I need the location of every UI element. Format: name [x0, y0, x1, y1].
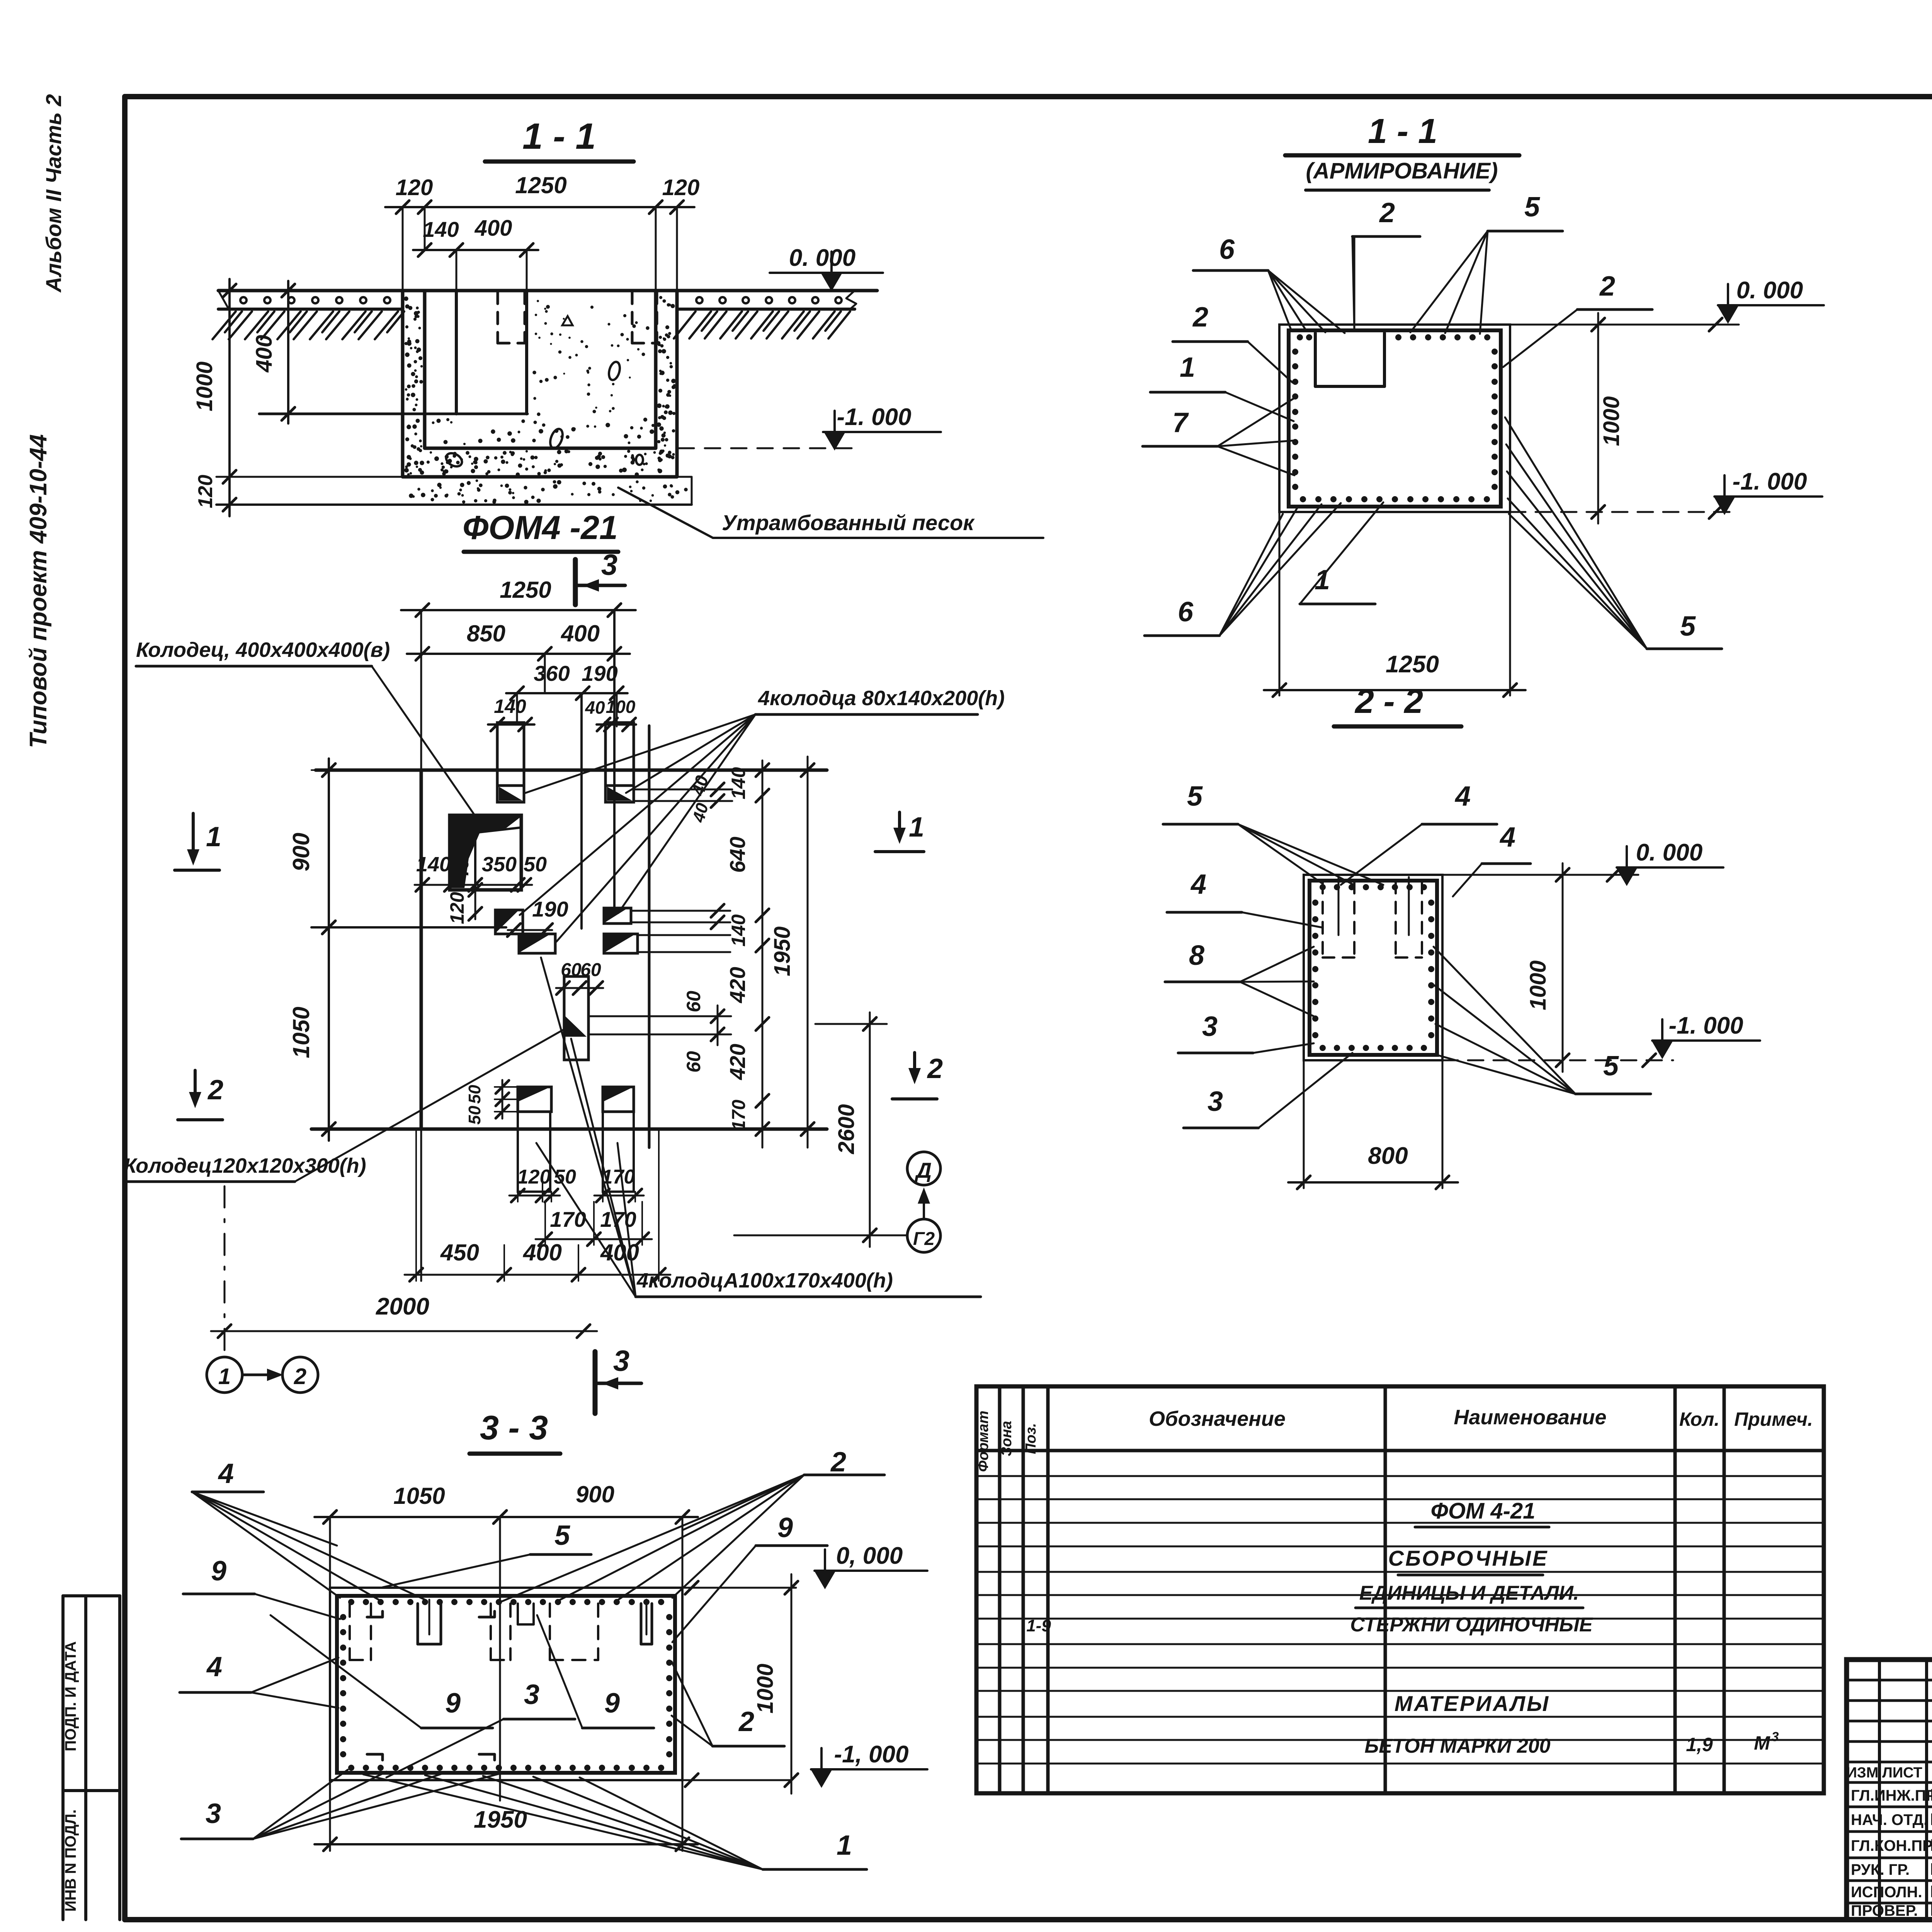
svg-text:М: М: [1754, 1732, 1770, 1754]
svg-text:БЕТОН МАРКИ 200: БЕТОН МАРКИ 200: [1364, 1735, 1550, 1757]
svg-text:3: 3: [601, 549, 617, 582]
svg-text:4колодцА100х170х400(h): 4колодцА100х170х400(h): [636, 1269, 893, 1292]
foundation concrete outline: [403, 291, 677, 477]
label podp i data: [62, 1641, 79, 1752]
svg-text:5: 5: [1680, 611, 1696, 642]
well 80x140 mid-right: [604, 904, 730, 929]
plan left edge: [420, 610, 422, 1281]
1-1a callout 1 bottom: [1300, 502, 1383, 604]
spec row fom: [1415, 1498, 1549, 1527]
1-1a callout 5 top: [1410, 192, 1563, 334]
2-2 rebar dots: [1312, 884, 1434, 1051]
svg-text:2: 2: [1192, 302, 1208, 333]
svg-text:1000: 1000: [192, 361, 217, 411]
svg-text:120: 120: [517, 1166, 551, 1188]
2-2 rebar cage: [1310, 881, 1437, 1055]
title block names: [1851, 1786, 1932, 1920]
svg-text:140: 140: [416, 853, 451, 876]
spec grid: [976, 1386, 1824, 1793]
svg-text:1050: 1050: [288, 1007, 314, 1058]
svg-text:1: 1: [218, 1364, 231, 1389]
svg-text:140: 140: [728, 767, 749, 799]
1-1a callout 7 left: [1143, 398, 1294, 475]
svg-text:0. 000: 0. 000: [1736, 277, 1803, 304]
svg-text:5: 5: [1187, 781, 1203, 812]
svg-text:7: 7: [1172, 407, 1189, 438]
svg-text:(АРМИРОВАНИЕ): (АРМИРОВАНИЕ): [1306, 158, 1498, 184]
well 80x140 mid-left: [495, 897, 568, 937]
1-1a outer square: [1279, 325, 1510, 512]
1-1a dim 1000 right: [1592, 313, 1624, 524]
3-3 outer rect: [330, 1588, 682, 1780]
svg-text:Примеч.: Примеч.: [1734, 1408, 1813, 1430]
ground line 0.000: [218, 289, 877, 293]
section 1-1 title: [485, 116, 634, 162]
3-3 callout 4 topleft: [192, 1458, 425, 1600]
svg-text:РЫЖАК: РЫЖАК: [1930, 1786, 1932, 1804]
dims 50 50 left of bottom wells: [465, 1080, 518, 1124]
concrete stipple walls: [404, 296, 676, 477]
svg-text:900: 900: [288, 833, 314, 871]
2-2 level -1.000: [1442, 1012, 1760, 1067]
svg-text:0. 000: 0. 000: [1636, 839, 1702, 866]
svg-text:МАТЕРИАЛЫ: МАТЕРИАЛЫ: [1395, 1691, 1550, 1716]
svg-text:120: 120: [194, 475, 217, 509]
pit sand fill dots: [432, 300, 655, 469]
section 3-3 title: [469, 1408, 560, 1454]
svg-text:360: 360: [534, 661, 570, 685]
3-3 callout 9 topright: [672, 1512, 827, 1642]
svg-text:1: 1: [1180, 352, 1195, 383]
svg-text:5: 5: [554, 1520, 570, 1551]
spec headers: [975, 1406, 1813, 1472]
center well ext lines 60 60: [588, 991, 731, 1073]
3-3 callout 3 in: [386, 1679, 575, 1777]
svg-text:Наименование: Наименование: [1454, 1406, 1606, 1429]
dim 170 bottom right: [594, 1166, 644, 1202]
3-3 callout 5 top: [383, 1520, 591, 1587]
2-2 level 0.000: [1442, 839, 1723, 886]
spec row edinitsy: [1355, 1582, 1583, 1608]
svg-text:Альбом II Часть 2: Альбом II Часть 2: [41, 94, 66, 293]
svg-text:1250: 1250: [1386, 651, 1439, 678]
2-2 dim 800: [1288, 1060, 1458, 1189]
3-3 dim 1000 right: [753, 1574, 798, 1794]
svg-text:4: 4: [1499, 822, 1515, 853]
svg-text:800: 800: [1368, 1143, 1408, 1169]
2-2 callout 3 left2: [1184, 1053, 1352, 1128]
svg-text:50: 50: [524, 853, 547, 876]
svg-text:-1. 000: -1. 000: [1668, 1012, 1743, 1039]
3-3 callout 9 in2: [537, 1615, 654, 1728]
svg-text:5: 5: [1603, 1051, 1619, 1082]
svg-text:2: 2: [294, 1364, 306, 1389]
svg-text:1: 1: [837, 1830, 852, 1861]
plan dim 900 left: [288, 759, 421, 939]
svg-text:3: 3: [524, 1679, 539, 1710]
svg-text:-1. 000: -1. 000: [837, 404, 911, 430]
anchor pocket dashed left: [498, 292, 525, 343]
plan dim 850 400: [407, 621, 630, 692]
svg-text:2: 2: [830, 1447, 846, 1478]
svg-text:3: 3: [1202, 1011, 1218, 1042]
1-1a callout 5 bottomright: [1505, 417, 1722, 649]
3-3 dim 1950: [315, 1780, 698, 1851]
1-1a level -1.000: [1510, 468, 1822, 519]
well 400x400 big: [450, 815, 521, 890]
svg-text:9: 9: [211, 1556, 226, 1587]
spec row sterzhni: [1026, 1614, 1593, 1636]
svg-text:1950: 1950: [474, 1806, 527, 1833]
svg-text:9: 9: [604, 1688, 620, 1719]
3-3 dim 1050 900: [315, 1481, 698, 1781]
plan title FOM4-21: [463, 509, 618, 552]
1-1a callout 2 left: [1173, 302, 1293, 383]
well 100x170 mid-left2: [519, 934, 555, 953]
1-1a rebar dots: [1292, 334, 1498, 502]
3-3 callout 2 right: [672, 1662, 784, 1746]
svg-text:5: 5: [1524, 192, 1540, 223]
3-3 callout 9 left: [183, 1556, 340, 1619]
1-1a callout 1 left: [1150, 352, 1294, 421]
svg-text:Колодец120х120х300(h): Колодец120х120х300(h): [124, 1154, 366, 1177]
plan dim 1050 left: [288, 916, 335, 1141]
stamp margin box left: [63, 1596, 120, 1920]
svg-text:2: 2: [1379, 197, 1395, 228]
svg-text:2: 2: [207, 1075, 223, 1105]
title block grid: [1847, 1660, 1932, 1920]
svg-text:ПОДП. И ДАТА: ПОДП. И ДАТА: [62, 1641, 79, 1752]
svg-text:8: 8: [1189, 940, 1204, 971]
section mark 3 top: [575, 549, 625, 605]
svg-text:Кол.: Кол.: [1679, 1408, 1719, 1430]
2-2 callout 8 left: [1165, 940, 1314, 1016]
svg-text:1000: 1000: [753, 1663, 778, 1713]
svg-text:ИНВ N ПОДЛ.: ИНВ N ПОДЛ.: [62, 1810, 79, 1912]
2-2 dashed well left: [1323, 877, 1354, 957]
anchor pocket dashed right: [632, 292, 657, 343]
well 80x140 top-left: [497, 723, 524, 802]
2-2 callout 4 top: [1341, 781, 1497, 885]
svg-text:400: 400: [450, 846, 473, 881]
dim 120 1250 120: [385, 172, 699, 289]
svg-text:0, 000: 0, 000: [836, 1543, 903, 1569]
svg-text:60: 60: [561, 960, 582, 980]
plan vertical x1680: [648, 726, 651, 1148]
label inv n podl: [62, 1810, 79, 1912]
svg-text:140: 140: [494, 696, 526, 717]
svg-text:-1, 000: -1, 000: [834, 1741, 908, 1768]
margin text albom chast: [41, 94, 66, 293]
2-2 dashed well right: [1396, 877, 1422, 957]
svg-text:3: 3: [206, 1798, 221, 1829]
svg-text:ГЛ.ИНЖ.ПР: ГЛ.ИНЖ.ПР: [1851, 1787, 1932, 1804]
label kolodets 400x400x400: [136, 638, 475, 816]
svg-text:9: 9: [445, 1688, 461, 1719]
3-3 callout 3 bottomleft: [181, 1770, 500, 1839]
1-1a level 0.000: [1510, 277, 1824, 331]
svg-text:ФОМ4 -21: ФОМ4 -21: [463, 509, 618, 546]
svg-text:1: 1: [206, 821, 221, 852]
svg-text:2000: 2000: [376, 1293, 429, 1320]
svg-text:190: 190: [582, 661, 617, 685]
svg-text:60: 60: [683, 991, 704, 1012]
1-1a callout 2 right: [1503, 271, 1652, 367]
margin text tipovoy proekt 409-10-44: [25, 434, 52, 748]
dim 140 400: [413, 216, 538, 289]
svg-text:ЛИСТ: ЛИСТ: [1882, 1765, 1922, 1781]
svg-text:140: 140: [423, 217, 459, 241]
svg-text:Колодец, 400х400х400(в): Колодец, 400х400х400(в): [136, 638, 390, 662]
sand under slab: [216, 477, 692, 505]
svg-text:1 - 1: 1 - 1: [1368, 112, 1437, 151]
section mark 2 left: [178, 1070, 223, 1120]
section 2-2 title: [1334, 682, 1461, 726]
svg-text:Утрамбованный песок: Утрамбованный песок: [722, 510, 975, 535]
svg-text:140: 140: [728, 914, 749, 947]
level mark 0.000: [770, 245, 883, 291]
svg-text:3 - 3: 3 - 3: [480, 1408, 548, 1447]
svg-text:120: 120: [662, 175, 700, 200]
well 100x170 mid-right2: [604, 934, 730, 953]
svg-text:ПРОВЕР.: ПРОВЕР.: [1851, 1902, 1918, 1919]
svg-text:420: 420: [725, 1044, 750, 1080]
svg-text:400: 400: [474, 216, 512, 241]
svg-text:1050: 1050: [393, 1483, 445, 1509]
well center 120x120: [556, 960, 603, 1060]
svg-text:4: 4: [206, 1651, 222, 1682]
svg-text:900: 900: [576, 1481, 614, 1507]
rotated dims 40 40 right top: [688, 773, 713, 825]
2-2 callout 3 left: [1178, 1011, 1314, 1053]
2-2 dim 1000 right: [1526, 863, 1569, 1072]
svg-text:4: 4: [218, 1458, 234, 1489]
well bottom-right: [603, 1087, 634, 1192]
vertical dim 1000 and 120: [192, 279, 403, 516]
section mark 2 right: [892, 1053, 943, 1099]
svg-text:ФОМ 4-21: ФОМ 4-21: [1431, 1498, 1536, 1524]
2-2 callout 4 top2: [1453, 822, 1531, 896]
svg-text:1: 1: [909, 812, 924, 843]
1-1a dim 1250: [1264, 512, 1526, 697]
section mark 1 right: [875, 812, 924, 852]
1-1a callout 6 bottom: [1145, 503, 1341, 636]
svg-text:НАЧ. ОТД.: НАЧ. ОТД.: [1851, 1811, 1928, 1828]
svg-text:400: 400: [523, 1240, 562, 1265]
3-3 callout 4 left: [180, 1651, 338, 1708]
3-3 rebar dots: [340, 1599, 672, 1771]
svg-text:640: 640: [725, 837, 750, 872]
svg-text:Г2: Г2: [913, 1229, 935, 1249]
svg-text:6: 6: [1178, 597, 1194, 628]
spec row beton: [1364, 1730, 1779, 1757]
svg-text:ИСПОЛН.: ИСПОЛН.: [1851, 1884, 1922, 1901]
label 4 kolodtsa 80x140x200: [520, 687, 1005, 942]
well bottom-left: [518, 1087, 551, 1192]
svg-text:1250: 1250: [515, 172, 566, 198]
svg-text:-1. 000: -1. 000: [1732, 468, 1807, 495]
svg-text:1250: 1250: [500, 577, 551, 603]
svg-text:СБОРОЧНЫЕ: СБОРОЧНЫЕ: [1388, 1546, 1549, 1570]
plan vertical x1505: [580, 693, 583, 929]
svg-text:2600: 2600: [834, 1104, 859, 1154]
svg-text:420: 420: [725, 967, 750, 1003]
svg-text:2 - 2: 2 - 2: [1354, 682, 1423, 720]
equipment well walls: [259, 291, 527, 414]
3-3 callout 1 bottomright: [363, 1774, 867, 1869]
svg-text:350: 350: [482, 853, 517, 876]
svg-text:50: 50: [465, 1085, 484, 1104]
dim 120 50 bottom: [509, 1166, 576, 1202]
svg-text:60: 60: [580, 960, 601, 980]
svg-text:РУК. ГР.: РУК. ГР.: [1851, 1861, 1910, 1878]
svg-text:1950: 1950: [770, 926, 795, 976]
svg-text:120: 120: [396, 175, 433, 200]
dim 2000: [211, 1293, 597, 1338]
axis circles 1 2: [207, 1186, 318, 1393]
right dim chain inner: [725, 760, 769, 1148]
dim 2600 right: [815, 1012, 887, 1247]
spec row materialy: [1395, 1691, 1550, 1716]
svg-text:Поз.: Поз.: [1023, 1423, 1039, 1454]
plan dim 40 100 top: [585, 697, 636, 731]
svg-text:Обозначение: Обозначение: [1149, 1407, 1286, 1430]
svg-text:1-9: 1-9: [1026, 1616, 1051, 1635]
svg-text:400: 400: [252, 335, 277, 373]
svg-text:Формат: Формат: [975, 1411, 992, 1472]
3-3 callout 9 in1: [270, 1615, 493, 1728]
well 80x140 top-right: [605, 723, 732, 808]
svg-text:Д: Д: [915, 1158, 932, 1182]
3-3 anchor wells dashed: [350, 1600, 652, 1760]
svg-text:0. 000: 0. 000: [789, 245, 855, 271]
ground hatch left: [213, 291, 404, 339]
svg-text:1000: 1000: [1599, 396, 1624, 446]
svg-text:ЕРОХИНА: ЕРОХИНА: [1930, 1882, 1932, 1901]
svg-text:40: 40: [585, 697, 605, 718]
svg-text:3: 3: [1207, 1086, 1223, 1117]
plan dim 360 190: [506, 661, 628, 726]
section 1-1a title: [1285, 112, 1519, 190]
label 4 kolodtsa 100x170x400: [536, 957, 981, 1297]
plan outline bottom: [311, 1128, 827, 1131]
svg-text:Зона: Зона: [998, 1421, 1015, 1456]
svg-text:1000: 1000: [1526, 960, 1551, 1010]
svg-text:МАСЛОБОЙЩИКОВА: МАСЛОБОЙЩИКОВА: [1930, 1900, 1932, 1920]
2-2 outer square: [1304, 875, 1442, 1060]
svg-text:850: 850: [467, 621, 505, 646]
svg-text:ГЛ.КОН.ПР: ГЛ.КОН.ПР: [1851, 1837, 1932, 1854]
spec row sborochnye: [1388, 1546, 1549, 1575]
level mark -1.000: [679, 404, 941, 451]
utrambovanny pesok label: [618, 488, 1043, 538]
svg-text:50: 50: [465, 1105, 484, 1124]
1-1a rebar cage: [1289, 330, 1501, 507]
dim 450 400 400: [405, 1129, 670, 1281]
svg-text:Типовой проект 409-10-44: Типовой проект 409-10-44: [25, 434, 52, 748]
3-3 level -1.000: [684, 1741, 927, 1788]
svg-text:400: 400: [561, 621, 600, 646]
svg-text:120: 120: [446, 892, 468, 924]
svg-text:1,9: 1,9: [1686, 1734, 1713, 1755]
plan vertical x1590: [613, 610, 616, 912]
3-3 center axis: [499, 1517, 501, 1801]
svg-text:ИЗМ: ИЗМ: [1847, 1765, 1879, 1781]
well 400 dims: [415, 846, 547, 924]
section mark 1 left: [175, 813, 221, 870]
svg-text:9: 9: [777, 1512, 793, 1543]
svg-text:2: 2: [927, 1053, 943, 1084]
plan dim 1250: [401, 577, 636, 617]
svg-text:КАЛЬЧУК: КАЛЬЧУК: [1930, 1836, 1932, 1855]
triangle mark delta: [562, 316, 573, 325]
vertical dim 400: [252, 281, 295, 423]
section mark 3 bottom: [595, 1345, 641, 1413]
svg-text:ЕДИНИЦЫ И ДЕТАЛИ.: ЕДИНИЦЫ И ДЕТАЛИ.: [1359, 1582, 1579, 1604]
title block header row: [1847, 1764, 1932, 1781]
svg-text:2: 2: [1599, 271, 1615, 302]
label kolodets 120x120x300: [124, 1029, 565, 1182]
2-2 callout 5 right: [1434, 947, 1651, 1094]
plan inner line y2420: [311, 926, 506, 929]
svg-text:6: 6: [1219, 234, 1235, 265]
svg-text:МАСЛОБОЙЩИКОВА: МАСЛОБОЙЩИКОВА: [1930, 1859, 1932, 1879]
3-3 callout 2 topright: [498, 1447, 884, 1603]
svg-text:100: 100: [606, 697, 636, 717]
svg-text:170: 170: [729, 1100, 749, 1131]
ground hatch right: [674, 291, 856, 338]
svg-text:50: 50: [554, 1166, 576, 1188]
2-2 callout 4 left: [1167, 869, 1321, 927]
1-1a notch well: [1315, 332, 1384, 386]
1-1a callout 2 top: [1352, 197, 1420, 330]
svg-text:450: 450: [440, 1240, 479, 1265]
plan dim 140 top: [488, 696, 534, 731]
svg-text:ГЛАЗУНОВ: ГЛАЗУНОВ: [1930, 1810, 1932, 1829]
1-1a callout 6 top: [1193, 234, 1345, 333]
right dim chain 1950: [770, 757, 814, 1148]
svg-text:4колодца 80х140х200(h): 4колодца 80х140х200(h): [758, 687, 1005, 710]
svg-text:4: 4: [1190, 869, 1206, 900]
plan outline top: [316, 769, 827, 772]
svg-text:3: 3: [613, 1345, 629, 1378]
3-3 rebar cage: [337, 1596, 675, 1773]
svg-text:60: 60: [683, 1051, 704, 1073]
svg-text:1 - 1: 1 - 1: [522, 116, 596, 157]
3-3 level 0.000: [684, 1543, 927, 1594]
svg-text:3: 3: [1772, 1730, 1779, 1744]
svg-text:4: 4: [1454, 781, 1471, 812]
svg-text:2: 2: [738, 1706, 754, 1737]
svg-text:СТЕРЖНИ ОДИНОЧНЫЕ: СТЕРЖНИ ОДИНОЧНЫЕ: [1350, 1614, 1593, 1636]
dim 170 170: [536, 1202, 652, 1246]
2-2 callout 5 left: [1163, 781, 1383, 885]
axis circles D G2: [734, 1152, 940, 1252]
